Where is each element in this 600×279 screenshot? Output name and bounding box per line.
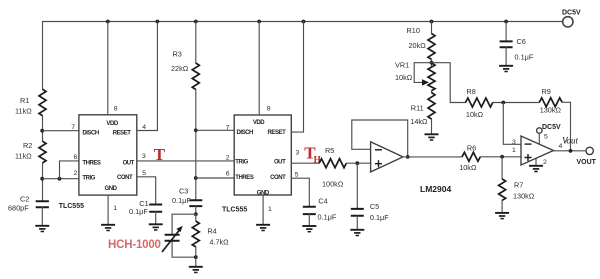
wire feedback loop: [352, 120, 408, 157]
ground below U1: [101, 224, 115, 226]
ground below C4: [302, 225, 316, 227]
wire down to C5: [356, 163, 358, 208]
node rail dot x505: [504, 20, 508, 24]
svg-text:OUT: OUT: [123, 160, 135, 166]
wire RESET pin4 U2 to rail: [291, 22, 303, 133]
svg-text:10kΩ: 10kΩ: [459, 163, 477, 172]
wire THRES pin6 U2: [196, 177, 234, 179]
svg-text:R6: R6: [467, 143, 476, 152]
wire THRES bracket to pin6 U1: [60, 161, 79, 179]
svg-text:R8: R8: [467, 87, 476, 96]
node rail dot x157: [156, 20, 160, 24]
resistor R3: [192, 63, 199, 90]
wire VDD pin8 U2: [258, 22, 260, 116]
wire down to R7: [501, 157, 503, 179]
wire to DISCH pin7 U1: [42, 130, 79, 132]
node output dot: [406, 155, 410, 159]
wire VR1 to R11: [431, 91, 433, 93]
wire left column from rail: [42, 22, 44, 90]
svg-text:R9: R9: [542, 87, 551, 96]
node output dot: [569, 149, 573, 153]
timer U1 TLC555 box: [79, 115, 137, 195]
node VR1 top dot: [430, 61, 434, 65]
svg-text:5: 5: [295, 172, 299, 179]
svg-text:VDD: VDD: [106, 121, 118, 127]
svg-text:OUT: OUT: [274, 160, 286, 166]
svg-text:VOUT: VOUT: [577, 159, 597, 166]
svg-text:VDD: VDD: [253, 120, 265, 126]
svg-text:GND: GND: [105, 186, 118, 192]
svg-text:130kΩ: 130kΩ: [540, 106, 562, 115]
wire VDD pin8 U1: [107, 22, 109, 115]
svg-text:22kΩ: 22kΩ: [171, 64, 189, 73]
node TRIG1 junction: [40, 177, 44, 181]
svg-text:7: 7: [71, 124, 75, 131]
ground below C5: [350, 229, 364, 231]
svg-text:10kΩ: 10kΩ: [466, 110, 484, 119]
svg-text:6: 6: [226, 170, 230, 177]
svg-text:0.1μF: 0.1μF: [318, 213, 337, 222]
svg-text:1: 1: [113, 205, 117, 212]
wire OUT pin3 U2 to R5: [291, 162, 319, 164]
node DISCH2 dot: [194, 128, 198, 132]
wire output to R6: [403, 156, 462, 158]
svg-text:0.1μF: 0.1μF: [129, 207, 148, 216]
resistor R4: [195, 214, 197, 257]
wire R8 to node: [493, 102, 540, 104]
svg-text:10kΩ: 10kΩ: [395, 73, 413, 82]
svg-text:R10: R10: [407, 26, 420, 35]
svg-text:R3: R3: [173, 50, 182, 59]
sensor HCH-1000 variable capacitor: [165, 235, 180, 241]
svg-text:RESET: RESET: [268, 130, 287, 136]
svg-text:100kΩ: 100kΩ: [322, 179, 344, 188]
wire VR1 wiper: [414, 63, 431, 83]
svg-text:CONT: CONT: [117, 175, 133, 181]
capacitor C5: [351, 209, 364, 216]
wire output to VOUT: [554, 150, 587, 152]
wire R3 column from rail: [195, 22, 197, 64]
svg-text:R11: R11: [411, 104, 424, 113]
wire R9 to output node: [562, 102, 570, 151]
svg-text:3: 3: [296, 149, 300, 156]
svg-text:6: 6: [74, 154, 78, 161]
svg-text:4.7kΩ: 4.7kΩ: [209, 237, 229, 246]
svg-text:14kΩ: 14kΩ: [410, 117, 428, 126]
resistor R6: [462, 152, 480, 161]
svg-text:3: 3: [142, 153, 146, 160]
ground below C6: [499, 65, 513, 67]
wire to sensor branch: [172, 214, 196, 257]
svg-text:4: 4: [142, 124, 146, 131]
svg-text:R7: R7: [514, 180, 523, 189]
wire R5 to op-amp: [346, 162, 370, 164]
svg-text:LM2904: LM2904: [420, 184, 451, 194]
svg-text:TLC555: TLC555: [222, 207, 247, 214]
ground below R11: [425, 133, 439, 135]
wire OUT pin3 U1 to TRIG pin2 U2: [137, 160, 234, 162]
svg-text:C5: C5: [370, 202, 379, 211]
resistor R7: [499, 179, 506, 201]
svg-text:0.1μF: 0.1μF: [515, 52, 534, 61]
resistor R1: [39, 89, 46, 116]
svg-text:8: 8: [267, 105, 271, 112]
ground below R7: [495, 212, 509, 214]
wire R3 down to C3: [195, 90, 197, 200]
potentiometer VR1: [428, 63, 435, 91]
node rail dot x431: [430, 20, 434, 24]
svg-text:680pF: 680pF: [8, 203, 29, 212]
svg-text:HCH-1000: HCH-1000: [108, 239, 161, 251]
wire GND pin1 U2: [262, 195, 264, 225]
wire R1 to R2: [42, 116, 44, 142]
node DISCH1 junction: [40, 129, 44, 133]
svg-text:3: 3: [512, 139, 516, 146]
op-amp U3A LM2904: [371, 142, 403, 172]
wire R6 to op-amp2 plus: [480, 156, 521, 158]
svg-text:11kΩ: 11kΩ: [15, 106, 32, 115]
wire R10 column from rail: [431, 22, 433, 34]
svg-text:R4: R4: [207, 227, 216, 236]
svg-text:0.1μF: 0.1μF: [370, 213, 389, 222]
svg-text:11kΩ: 11kΩ: [15, 151, 32, 160]
svg-text:7: 7: [226, 124, 230, 131]
svg-text:DC5V: DC5V: [562, 10, 581, 17]
resistor R10: [428, 34, 435, 60]
svg-text:8: 8: [114, 106, 118, 113]
node THRES tap dot: [58, 177, 62, 181]
svg-text:VR1: VR1: [395, 61, 409, 70]
wire DISCH pin7 U2: [196, 129, 234, 131]
svg-text:2: 2: [543, 159, 547, 166]
timer U2 TLC555 box: [234, 115, 291, 195]
svg-text:C3: C3: [179, 187, 188, 196]
node VDD rail dot x107: [106, 20, 110, 24]
wire R2 to C2: [42, 163, 44, 201]
wire TRIG row to pin2 U1: [42, 178, 79, 180]
resistor R8: [466, 98, 493, 107]
svg-text:20kΩ: 20kΩ: [409, 41, 427, 50]
svg-text:5: 5: [142, 170, 146, 177]
op-amp U3B LM2904: [521, 136, 554, 165]
node minus2 column dot: [501, 101, 505, 105]
node rail dot x303: [302, 20, 306, 24]
ground below C1: [149, 223, 163, 225]
svg-text:2: 2: [226, 154, 230, 161]
capacitor C2: [36, 201, 49, 207]
node rail dot x258: [257, 20, 261, 24]
wire R10 to VR1: [431, 59, 433, 65]
svg-text:T: T: [154, 145, 166, 164]
wire down to minus input op-amp2: [503, 103, 521, 145]
svg-text:DISCH: DISCH: [82, 131, 99, 137]
resistor R2: [39, 141, 46, 163]
capacitor C4: [303, 207, 316, 214]
svg-text:C2: C2: [20, 195, 29, 204]
resistor R11: [428, 93, 435, 120]
svg-text:CONT: CONT: [270, 175, 286, 181]
terminal DC5V pin5: [537, 128, 542, 133]
svg-text:V̸out: V̸out: [562, 136, 579, 146]
svg-text:R5: R5: [325, 146, 334, 155]
svg-text:C6: C6: [517, 37, 526, 46]
node rail dot x195: [194, 20, 198, 24]
node THRES2 dot: [194, 176, 198, 180]
ground pin2 op-amp: [535, 158, 537, 165]
svg-text:TLC555: TLC555: [59, 203, 84, 210]
svg-text:0.1μF: 0.1μF: [172, 196, 191, 205]
svg-text:TRIG: TRIG: [82, 175, 95, 181]
svg-text:1: 1: [268, 206, 272, 213]
resistor R5: [319, 159, 346, 168]
resistor R9: [539, 98, 562, 107]
svg-text:R1: R1: [20, 96, 29, 105]
svg-text:4: 4: [559, 143, 563, 150]
node plus2 dot: [500, 155, 504, 159]
terminal DC5V: [563, 17, 573, 27]
svg-text:THRES: THRES: [235, 175, 254, 181]
wire CONT pin5 U2 to C4: [291, 178, 309, 206]
ground below U2: [256, 224, 270, 226]
capacitor C1: [149, 205, 162, 212]
node plus input dot: [355, 161, 359, 165]
capacitor C6: [505, 22, 507, 42]
svg-text:130kΩ: 130kΩ: [513, 191, 535, 200]
svg-text:2: 2: [74, 170, 78, 177]
svg-text:5: 5: [544, 133, 548, 140]
wire CONT pin5 U1 to C1: [137, 177, 156, 204]
svg-text:DC5V: DC5V: [542, 124, 561, 131]
svg-text:1: 1: [512, 147, 516, 154]
svg-text:R2: R2: [23, 141, 32, 150]
svg-text:C4: C4: [318, 196, 327, 205]
node sensor bottom dot: [194, 255, 198, 259]
wire RESET pin4 U1 to rail: [137, 22, 158, 131]
ground below sensor: [189, 266, 203, 268]
svg-text:TRIG: TRIG: [235, 160, 248, 166]
wire ref node to R8: [432, 63, 466, 103]
wire top supply rail: [43, 21, 563, 23]
ground below C2: [35, 225, 49, 227]
terminal VOUT: [586, 147, 593, 154]
node sensor top dot: [194, 212, 198, 216]
wire to ground: [195, 257, 197, 266]
svg-text:RESET: RESET: [113, 131, 132, 137]
wire GND pin1 U1: [107, 195, 109, 224]
svg-text:THRES: THRES: [82, 160, 101, 166]
capacitor C3: [189, 200, 202, 206]
svg-text:DISCH: DISCH: [237, 130, 254, 136]
